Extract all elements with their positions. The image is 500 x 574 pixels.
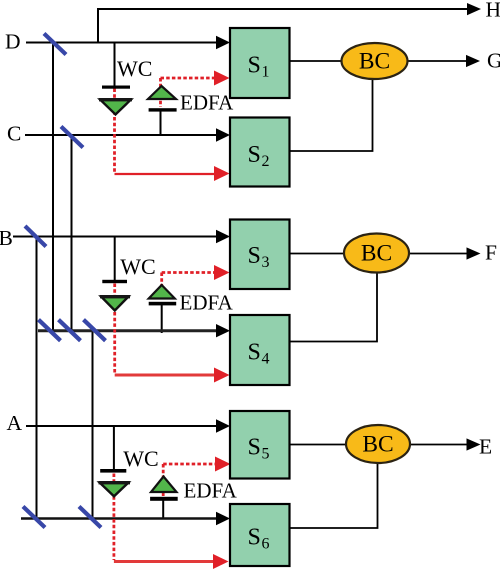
svg-text:H: H bbox=[486, 0, 500, 22]
svg-text:S: S bbox=[248, 435, 261, 461]
svg-text:A: A bbox=[7, 411, 23, 435]
svg-text:S: S bbox=[248, 340, 261, 366]
svg-text:S: S bbox=[248, 243, 261, 269]
svg-text:WC: WC bbox=[120, 254, 155, 279]
svg-text:D: D bbox=[5, 30, 21, 54]
svg-text:2: 2 bbox=[262, 153, 270, 170]
svg-text:F: F bbox=[485, 241, 497, 265]
svg-text:4: 4 bbox=[262, 351, 270, 368]
svg-text:S: S bbox=[248, 142, 261, 168]
svg-text:WC: WC bbox=[123, 446, 158, 471]
svg-text:EDFA: EDFA bbox=[180, 291, 234, 315]
svg-text:1: 1 bbox=[262, 64, 270, 81]
svg-text:B: B bbox=[0, 226, 13, 250]
svg-text:3: 3 bbox=[262, 254, 270, 271]
svg-text:G: G bbox=[487, 49, 500, 73]
svg-text:BC: BC bbox=[362, 432, 393, 458]
svg-text:BC: BC bbox=[361, 241, 392, 267]
svg-text:EDFA: EDFA bbox=[180, 91, 234, 115]
svg-text:EDFA: EDFA bbox=[184, 479, 238, 503]
svg-text:S: S bbox=[248, 53, 261, 79]
svg-text:E: E bbox=[479, 435, 492, 459]
svg-text:6: 6 bbox=[262, 536, 270, 553]
svg-text:BC: BC bbox=[359, 49, 390, 75]
svg-text:WC: WC bbox=[117, 56, 152, 81]
svg-text:5: 5 bbox=[262, 446, 270, 463]
svg-text:C: C bbox=[7, 122, 21, 146]
svg-text:S: S bbox=[248, 525, 261, 551]
